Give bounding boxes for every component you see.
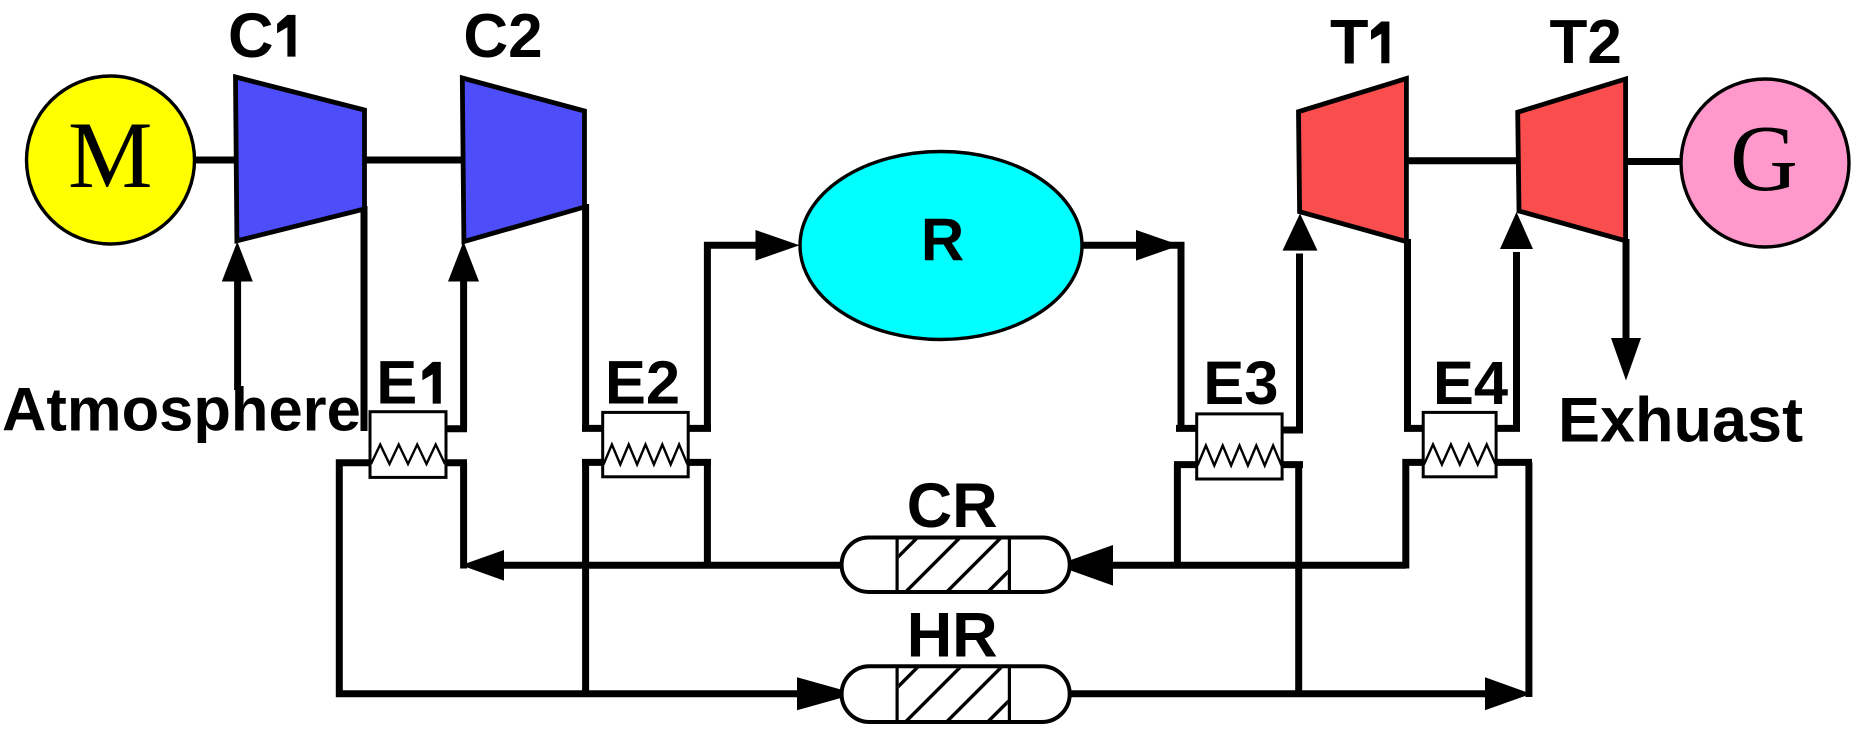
svg-text:E4: E4 [1433,349,1508,418]
svg-text:G: G [1730,107,1798,211]
svg-text:Atmosphere: Atmosphere [2,376,361,445]
svg-text:HR: HR [907,601,998,671]
svg-text:T2: T2 [1550,8,1622,77]
svg-text:E: E [376,349,417,418]
svg-text:C2: C2 [463,2,542,71]
svg-text:R: R [921,207,964,274]
svg-text:T: T [1330,7,1368,77]
svg-text:CR: CR [907,471,998,541]
svg-text:C: C [228,1,274,71]
svg-text:E2: E2 [605,349,680,418]
svg-text:E3: E3 [1203,349,1278,418]
svg-text:Exhuast: Exhuast [1558,385,1803,455]
svg-text:M: M [68,102,152,208]
